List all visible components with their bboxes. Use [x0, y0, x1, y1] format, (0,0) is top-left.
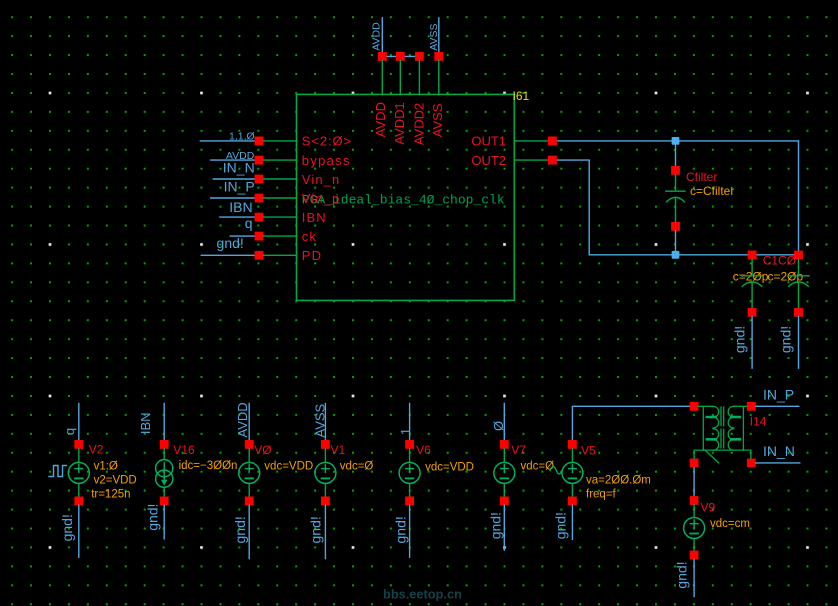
stub Vin_n to box — [263, 178, 296, 180]
svg-text:vdc=Ø: vdc=Ø — [521, 460, 555, 472]
wire net 1,1,0 — [200, 140, 259, 142]
svg-text:AVDD: AVDD — [373, 102, 388, 137]
source V5 (vsin) — [550, 406, 690, 539]
svg-text:AVDD: AVDD — [371, 22, 383, 51]
svg-text:AVSS: AVSS — [312, 403, 327, 437]
pin square V5 bottom — [568, 497, 577, 506]
svg-text:vdc=cm: vdc=cm — [710, 518, 750, 530]
stub bypass to box — [263, 159, 296, 161]
pin square V9 bottom — [690, 551, 699, 560]
V16 body current source — [163, 449, 165, 497]
svg-text:V7: V7 — [511, 443, 526, 457]
wire net gnd! — [201, 254, 259, 256]
wire OUT1 right vertical — [798, 141, 800, 255]
svg-text:IN_N: IN_N — [763, 443, 795, 459]
source V7 (vdc) — [487, 404, 554, 551]
wire AVSS to box — [438, 61, 440, 95]
svg-text:idc=−3ØØn: idc=−3ØØn — [179, 460, 238, 472]
svg-text:q: q — [62, 428, 77, 435]
wire V0 bottom — [248, 505, 250, 558]
pin square Vin_p — [255, 194, 264, 203]
stub S to box — [263, 140, 296, 142]
pin square ck — [255, 232, 264, 241]
svg-text:bbs.eetop.cn: bbs.eetop.cn — [383, 586, 462, 601]
core lines — [721, 407, 724, 448]
source V2 (vpulse) — [49, 404, 137, 558]
capacitor Cfilter terminal bottom — [671, 222, 680, 231]
pin square V6 bottom — [405, 497, 414, 506]
capacitor C0 terminal top — [794, 251, 803, 260]
capacitor C1 terminal bottom — [748, 308, 757, 317]
svg-text:AVSS: AVSS — [428, 23, 440, 50]
V0 body — [248, 449, 250, 497]
pin square V0 bottom — [245, 497, 254, 506]
svg-text:freq=f: freq=f — [586, 488, 617, 500]
pin square AVDD — [378, 52, 387, 61]
wire AVSS supply stub — [438, 18, 440, 52]
wire V6 bottom — [409, 505, 411, 557]
wire V6 top — [409, 404, 411, 441]
pin square TL — [690, 402, 699, 411]
svg-text:gnd!: gnd! — [145, 504, 161, 531]
svg-text:c=Cfilter: c=Cfilter — [690, 184, 734, 198]
svg-text:AVDD1: AVDD1 — [392, 102, 407, 144]
wire IN_N — [756, 462, 800, 464]
wire V7 bottom — [503, 505, 505, 550]
pin square V2 top — [74, 440, 83, 449]
wire C0 to gnd — [798, 317, 800, 369]
pin square V2 bottom — [74, 497, 83, 506]
V6 body — [409, 449, 411, 497]
svg-text:IBN: IBN — [138, 412, 153, 434]
svg-text:va=2ØØ.Øm: va=2ØØ.Øm — [586, 474, 651, 486]
svg-text:AVDD: AVDD — [235, 402, 250, 437]
wire net IN_N — [213, 178, 259, 180]
pin square V7 bottom — [500, 497, 509, 506]
BL connection — [694, 450, 703, 458]
svg-text:C1CØ: C1CØ — [763, 254, 796, 268]
svg-text:AVDD2: AVDD2 — [412, 103, 427, 145]
svg-text:bypass: bypass — [302, 153, 351, 168]
wire V1 top — [324, 404, 326, 441]
wire net AVDD — [211, 159, 259, 161]
pin square bypass — [255, 156, 264, 165]
wire V5 bottom — [571, 505, 573, 539]
svg-text:V2: V2 — [89, 443, 104, 457]
left polarity dashes — [707, 417, 716, 439]
wire net IN_P — [211, 197, 259, 199]
pin square BL — [690, 459, 699, 468]
svg-text:Ø: Ø — [491, 421, 506, 431]
capacitor C1 body — [742, 259, 763, 308]
svg-text:VØ: VØ — [254, 443, 271, 457]
wire V1 bottom — [324, 505, 326, 558]
transformer I14 — [690, 402, 767, 467]
svg-text:q: q — [245, 215, 253, 231]
stub IBN to box — [263, 216, 296, 218]
wire V2 top — [78, 404, 80, 441]
svg-text:gnd!: gnd! — [553, 512, 569, 539]
pin square IBN — [255, 213, 264, 222]
stub OUT2 from box — [514, 159, 548, 161]
svg-text:vdc=VDD: vdc=VDD — [425, 461, 474, 473]
V9 body — [693, 505, 695, 551]
source V9 (vdc) — [674, 467, 750, 596]
V1 body — [324, 449, 326, 497]
svg-text:V6: V6 — [416, 443, 431, 457]
svg-text:V5: V5 — [581, 444, 596, 458]
svg-text:V9: V9 — [701, 501, 716, 515]
source V1 (vdc) — [307, 403, 373, 558]
PGA instance box I61 — [297, 94, 515, 300]
wire V2 bottom — [78, 505, 80, 557]
svg-text:vdc=VDD: vdc=VDD — [264, 460, 313, 472]
V7 body — [503, 449, 505, 497]
wire V5 top route to transformer — [572, 406, 689, 440]
svg-text:gnd!: gnd! — [217, 235, 244, 251]
svg-text:Vin_n: Vin_n — [302, 172, 341, 187]
pulse waveform glyph — [49, 466, 66, 477]
pin square Vin_n — [255, 175, 264, 184]
wire V9 bottom — [693, 559, 695, 596]
wire V16 top — [163, 404, 165, 441]
svg-text:vdc=Ø: vdc=Ø — [340, 460, 374, 472]
capacitor C1 terminal top — [748, 251, 757, 260]
svg-text:S<2:Ø>: S<2:Ø> — [302, 134, 352, 149]
svg-text:1,1,Ø: 1,1,Ø — [229, 130, 255, 142]
svg-text:gnd!: gnd! — [674, 561, 690, 588]
capacitor C0 terminal bottom — [794, 308, 803, 317]
wire V16 bottom — [163, 505, 165, 539]
svg-text:IBN: IBN — [302, 210, 327, 225]
pin square AVSS — [434, 52, 443, 61]
svg-text:gnd!: gnd! — [487, 512, 503, 539]
svg-text:IBN: IBN — [229, 199, 252, 215]
svg-text:v2=VDD: v2=VDD — [94, 474, 137, 486]
stub ck to box — [263, 235, 296, 237]
pin square V5 top — [568, 440, 577, 449]
right winding coils — [728, 406, 734, 450]
V5 body — [571, 449, 573, 497]
left winding coils — [713, 406, 719, 450]
pin square V6 top — [405, 440, 414, 449]
svg-text:tr=125n: tr=125n — [91, 488, 130, 500]
svg-text:gnd!: gnd! — [778, 326, 794, 353]
svg-text:gnd!: gnd! — [393, 516, 409, 543]
stub OUT1 from box — [514, 140, 548, 142]
pin square V16 top — [160, 440, 169, 449]
pin square V1 top — [321, 440, 330, 449]
pin square OUT1 — [548, 137, 557, 146]
diagonal stub — [705, 450, 719, 463]
svg-text:IN_P: IN_P — [763, 386, 794, 402]
wire joining AVDD pins — [382, 55, 419, 57]
wire IN_P — [756, 405, 799, 407]
svg-text:IN_N: IN_N — [223, 160, 255, 176]
pin square V16 bottom — [160, 497, 169, 506]
stub PD to box — [263, 254, 296, 256]
wire Cfilter top — [675, 141, 677, 166]
svg-text:Vin_p: Vin_p — [302, 191, 341, 206]
svg-text:1: 1 — [398, 428, 413, 435]
svg-text:ck: ck — [302, 229, 317, 244]
svg-text:OUT1: OUT1 — [471, 134, 506, 149]
svg-text:Cfilter: Cfilter — [686, 170, 717, 184]
svg-text:gnd!: gnd! — [59, 514, 75, 541]
source V0 (vdc) — [232, 402, 313, 558]
pin square V9 top — [690, 496, 699, 505]
source V6 (vdc) — [393, 404, 475, 558]
wire Cfilter bottom — [675, 231, 677, 255]
pin square OUT2 — [548, 156, 557, 165]
source V16 (idc) — [138, 404, 238, 539]
pin square AVDD2 — [415, 52, 424, 61]
wire AVDD2 to box — [418, 61, 420, 95]
pin square V1 bottom — [321, 497, 330, 506]
wire V9 top from transformer — [693, 467, 695, 496]
wire OUT1 horizontal — [557, 140, 799, 142]
svg-text:gnd!: gnd! — [731, 326, 747, 353]
wire V0 top — [248, 404, 250, 441]
pin square PD — [255, 251, 264, 260]
svg-text:gnd!: gnd! — [232, 516, 248, 543]
V2 body — [78, 449, 80, 497]
wire net IBN — [220, 216, 259, 218]
svg-text:OUT2: OUT2 — [471, 153, 506, 168]
svg-text:gnd!: gnd! — [307, 516, 323, 543]
pin square V0 top — [245, 440, 254, 449]
wire AVDD1 to box — [399, 61, 401, 95]
junction dot top — [672, 137, 680, 145]
pin square BR — [747, 459, 756, 468]
wire AVDD to box — [381, 61, 383, 95]
pin square S — [255, 137, 264, 146]
svg-text:I14: I14 — [750, 415, 767, 429]
wire C1 to gnd — [751, 317, 753, 369]
right polarity dashes — [731, 417, 740, 439]
stub Vin_p to box — [263, 197, 296, 199]
wire OUT2 route — [557, 160, 799, 255]
svg-text:V16: V16 — [173, 443, 195, 457]
right rail — [734, 406, 747, 450]
wire net q — [230, 235, 259, 237]
left rail — [699, 406, 714, 450]
capacitor Cfilter body — [666, 175, 685, 222]
capacitor C0 body — [788, 259, 809, 308]
pin square TR — [747, 402, 756, 411]
svg-text:AVSS: AVSS — [430, 103, 445, 137]
pin square AVDD1 — [396, 52, 405, 61]
svg-text:v1:Ø: v1:Ø — [94, 460, 118, 472]
sine glyph — [550, 467, 562, 475]
pin square V7 top — [500, 440, 509, 449]
svg-text:PD: PD — [302, 248, 322, 263]
wire V7 top — [503, 404, 505, 441]
bottom rail — [703, 450, 751, 458]
junction dot bottom — [672, 251, 680, 259]
svg-text:V1: V1 — [331, 443, 346, 457]
capacitor Cfilter terminal top — [671, 166, 680, 175]
wire AVDD supply stub — [381, 18, 383, 52]
svg-text:I61: I61 — [513, 89, 530, 103]
svg-text:IN_P: IN_P — [224, 179, 255, 195]
